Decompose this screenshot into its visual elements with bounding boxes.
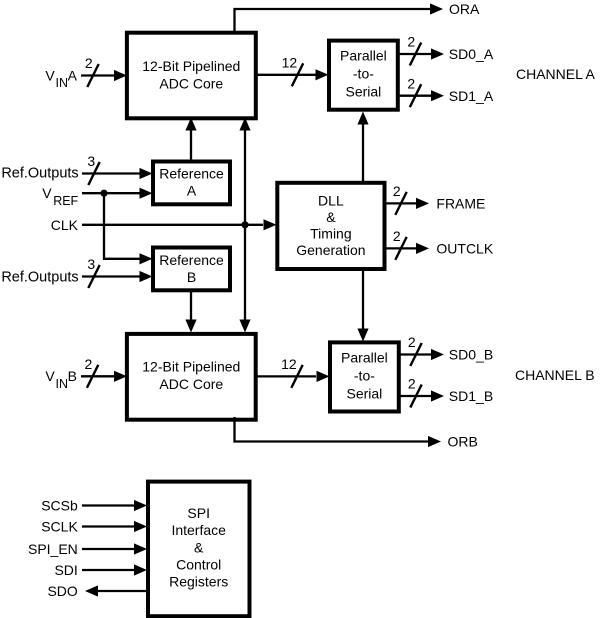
wire SD1_A output with bus slash 2 <box>396 75 444 107</box>
wire SD0_A output with bus slash 2 <box>396 34 444 66</box>
block Reference B <box>153 248 230 291</box>
wire VINB input with bus slash 2 <box>81 356 127 388</box>
wire OUTCLK output with bus slash 2 <box>384 228 430 260</box>
svg-text:-to-: -to- <box>354 367 375 383</box>
label SD0_A <box>449 46 494 62</box>
svg-text:&: & <box>326 209 336 225</box>
svg-text:CLK: CLK <box>51 217 79 233</box>
wire CLK horizontal to DLL with junction <box>82 219 277 230</box>
svg-text:2: 2 <box>393 228 401 244</box>
svg-text:ADC Core: ADC Core <box>159 75 223 91</box>
svg-text:B: B <box>187 269 196 285</box>
svg-text:CHANNEL A: CHANNEL A <box>516 66 596 82</box>
svg-text:12-Bit Pipelined: 12-Bit Pipelined <box>142 58 240 74</box>
block SPI Interface and Control Registers <box>148 482 250 617</box>
label Ref.Outputs (channel B) <box>1 269 78 285</box>
svg-text:SDO: SDO <box>47 583 77 599</box>
svg-text:B: B <box>68 368 77 384</box>
label CHANNEL A <box>516 66 596 82</box>
block ADC Core B (12-Bit Pipelined ADC Core) <box>127 334 256 420</box>
wire SDO output (leftward) <box>85 585 147 596</box>
svg-text:DLL: DLL <box>318 193 344 209</box>
label CLK <box>51 217 79 233</box>
block Parallel-to-Serial B <box>330 342 399 411</box>
wire FRAME output with bus slash 2 <box>384 183 430 215</box>
svg-text:Ref.Outputs: Ref.Outputs <box>1 269 78 285</box>
wire ORB from ADC Core B bottom to output <box>235 417 442 447</box>
svg-text:V: V <box>45 67 55 83</box>
svg-text:ORB: ORB <box>448 434 478 450</box>
label FRAME <box>436 196 485 212</box>
wire VREF to Reference A with junction dot <box>82 188 153 199</box>
svg-text:V: V <box>42 185 52 201</box>
label SCSb <box>41 498 78 514</box>
svg-text:3: 3 <box>87 153 95 169</box>
svg-text:&: & <box>194 539 204 555</box>
svg-text:-to-: -to- <box>353 65 374 81</box>
wire DLL to Parallel-to-Serial A (up) <box>357 112 368 183</box>
svg-text:2: 2 <box>393 183 401 199</box>
wire DLL to Parallel-to-Serial B (down) <box>357 269 368 342</box>
svg-text:Serial: Serial <box>347 385 383 401</box>
svg-text:ORA: ORA <box>449 1 480 17</box>
label SCLK <box>41 519 78 535</box>
svg-text:Parallel: Parallel <box>340 47 387 63</box>
svg-text:SPI_EN: SPI_EN <box>28 541 78 557</box>
wire VINA input with bus slash 2 <box>81 55 127 87</box>
svg-text:SCLK: SCLK <box>41 519 78 535</box>
label VREF (V REF) <box>42 185 78 208</box>
wire VREF branch down to Reference B <box>104 193 153 264</box>
svg-text:Parallel: Parallel <box>341 349 388 365</box>
label SD1_B <box>449 388 493 404</box>
svg-text:Reference: Reference <box>159 252 224 268</box>
svg-text:A: A <box>68 67 78 83</box>
label CHANNEL B <box>515 367 595 383</box>
svg-text:V: V <box>45 368 55 384</box>
svg-text:SD1_A: SD1_A <box>449 88 494 104</box>
svg-text:12-Bit Pipelined: 12-Bit Pipelined <box>142 358 240 374</box>
block ADC Core A (12-Bit Pipelined ADC Core) <box>127 33 256 119</box>
svg-text:Generation: Generation <box>296 242 365 258</box>
wire Reference A output up into ADC Core A <box>185 118 196 162</box>
wire Ref.Outputs to Reference A with bus slash 3 <box>82 153 153 185</box>
label SD0_B <box>449 347 493 363</box>
label Ref.Outputs (channel A) <box>1 165 78 181</box>
svg-text:SD0_B: SD0_B <box>449 347 493 363</box>
svg-text:2: 2 <box>85 55 93 71</box>
svg-text:2: 2 <box>85 356 93 372</box>
svg-text:Serial: Serial <box>346 83 382 99</box>
svg-text:FRAME: FRAME <box>436 196 485 212</box>
svg-text:2: 2 <box>408 376 416 392</box>
svg-text:Ref.Outputs: Ref.Outputs <box>1 165 78 181</box>
svg-text:2: 2 <box>407 75 415 91</box>
svg-text:3: 3 <box>87 256 95 272</box>
label SDI <box>54 562 77 578</box>
wire SCSb input <box>82 500 147 511</box>
svg-text:Timing: Timing <box>310 226 352 242</box>
label SDO <box>47 583 77 599</box>
svg-text:12: 12 <box>282 55 298 71</box>
wire CLK vertical distribution to both ADC cores with junction dot <box>239 118 250 333</box>
svg-text:2: 2 <box>407 34 415 50</box>
wire SCLK input <box>82 521 147 532</box>
svg-text:SD1_B: SD1_B <box>449 388 493 404</box>
label SPI_EN <box>28 541 78 557</box>
svg-text:SCSb: SCSb <box>41 498 78 514</box>
block Parallel-to-Serial A <box>329 41 398 110</box>
svg-text:SDI: SDI <box>54 562 77 578</box>
svg-text:Reference: Reference <box>159 165 224 181</box>
svg-text:IN: IN <box>56 377 69 391</box>
svg-text:12: 12 <box>281 356 297 372</box>
wire SD0_B output with bus slash 2 <box>399 334 444 366</box>
svg-text:SD0_A: SD0_A <box>449 46 494 62</box>
svg-text:CHANNEL B: CHANNEL B <box>515 367 595 383</box>
wire SPI_EN input <box>82 543 147 554</box>
wire Ref.Outputs to Reference B with bus slash 3 <box>82 256 153 288</box>
svg-text:2: 2 <box>408 334 416 350</box>
svg-text:ADC Core: ADC Core <box>159 376 223 392</box>
label SD1_A <box>449 88 494 104</box>
bus wire ADC Core B to Parallel-to-Serial B, width 12 <box>254 356 330 388</box>
label VINA (V IN A) <box>45 67 77 90</box>
label ORB <box>448 434 478 450</box>
wire Reference B output down into ADC Core B <box>185 289 196 333</box>
svg-text:IN: IN <box>56 76 69 90</box>
block Reference A <box>153 162 230 205</box>
label VINB (V IN B) <box>45 368 77 391</box>
wire ORA from ADC Core A top to output <box>235 3 444 32</box>
svg-text:SPI: SPI <box>187 505 210 521</box>
svg-text:OUTCLK: OUTCLK <box>436 241 493 257</box>
svg-text:REF: REF <box>53 194 78 208</box>
wire SDI input <box>82 564 147 575</box>
label OUTCLK <box>436 241 493 257</box>
svg-text:Control: Control <box>176 556 221 572</box>
svg-text:A: A <box>187 183 197 199</box>
svg-text:Registers: Registers <box>169 574 228 590</box>
block DLL and Timing Generation <box>277 183 384 269</box>
label ORA <box>449 1 480 17</box>
wire SD1_B output with bus slash 2 <box>399 376 444 408</box>
bus wire ADC Core A to Parallel-to-Serial A, width 12 <box>254 55 329 87</box>
svg-text:Interface: Interface <box>171 522 226 538</box>
